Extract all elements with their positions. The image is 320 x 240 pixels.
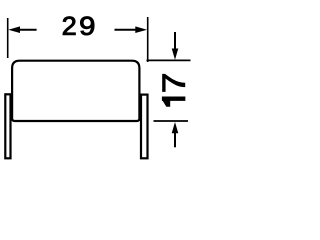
dimension 17: upper dimension line with down arrow <box>172 32 179 60</box>
dimension 29: left arrow <box>8 26 36 33</box>
component body <box>12 61 139 121</box>
right terminal tab <box>141 95 148 159</box>
dimension 17: top extension line <box>147 59 191 61</box>
dimension label 17 (rotated) <box>162 74 184 106</box>
left terminal tab <box>5 94 10 158</box>
dimension 17: bottom extension line <box>154 120 189 122</box>
dimension 17: lower dimension line with up arrow <box>172 122 179 147</box>
dimension 29: left extension line <box>7 18 9 58</box>
dimension 29: right extension line <box>147 17 149 62</box>
dimension label 29 <box>63 17 94 35</box>
dimension 29: right arrow <box>115 26 148 33</box>
